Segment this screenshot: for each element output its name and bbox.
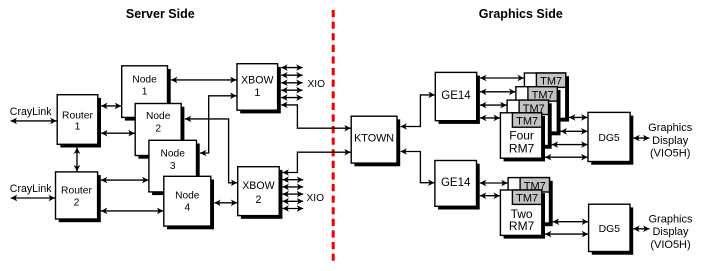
svg-text:GE14: GE14 [441,90,471,102]
box Router 2 [56,172,101,222]
svg-text:TM7: TM7 [516,193,538,205]
svg-text:(VIO5H): (VIO5H) [650,148,690,160]
wire TM7 board 1 to DG5 upper [569,116,588,118]
wire Router 1 to Router 2 [76,148,78,172]
box Node 2 [135,104,184,159]
svg-text:RM7: RM7 [509,142,535,156]
wire Node 3 to XBOW 1 [200,96,237,153]
svg-text:DG5: DG5 [598,133,620,144]
svg-text:2: 2 [74,198,80,209]
wire TM7 board 2 to DG5 upper [561,130,588,132]
divider: red dashed line between server and graphics sides [332,10,335,261]
wire KTOWN to GE14 lower [401,152,435,183]
svg-text:XIO: XIO [307,193,325,204]
box KTOWN [351,116,400,166]
wire Node 1 to XBOW 1 [171,79,237,81]
wire XIO port 5 of XBOW 2 [283,208,304,210]
box XBOW 1 [237,64,281,114]
wire TM7 board 6 to DG5 lower [545,233,588,235]
svg-text:1: 1 [75,121,81,132]
svg-text:DG5: DG5 [599,224,621,235]
board Four RM7 (front) [500,113,545,162]
wire GE14 upper to TM7 board 2 [480,91,515,93]
box DG5 lower [589,204,634,255]
wire CrayLink 2 to Router 2 [11,197,55,199]
svg-text:1: 1 [142,87,148,98]
svg-text:Graphics: Graphics [648,213,693,225]
wire DG5 lower to graphics display [633,228,649,230]
wire GE14 upper to TM7 board 3 [480,104,507,106]
svg-text:XBOW: XBOW [241,75,273,87]
box Node 1 [122,66,171,121]
board TM7/RM7 3 [507,100,552,149]
svg-text:(VIO5H): (VIO5H) [650,239,690,251]
box GE14 upper [435,72,480,123]
wire Router 1 to Node 2 [101,132,135,134]
wire Node 4 to XBOW 2 [214,202,237,204]
wire Node 2 to XBOW 2 [185,119,237,183]
wire XIO port 4 of XBOW 2 [283,200,304,202]
board TM7/RM7 5 (back of two stack) [508,178,553,227]
wire XIO port 2 of XBOW 2 [283,186,304,188]
box XBOW 2 [238,167,283,219]
wire XIO port 4 of XBOW 1 [281,89,302,91]
svg-text:CrayLink: CrayLink [10,106,53,118]
svg-text:3: 3 [170,161,176,172]
board Two RM7 (front) [500,190,545,239]
svg-text:Node: Node [161,149,186,160]
svg-text:Router: Router [61,186,92,197]
svg-text:Node: Node [132,74,157,85]
svg-text:XBOW: XBOW [242,180,274,192]
wire XIO port 1 of XBOW 1 [281,67,302,69]
wire XIO port 2 of XBOW 1 [281,74,302,76]
box DG5 upper [588,112,633,164]
wire XIO port 5 of XBOW 1 [281,97,302,99]
svg-text:Router: Router [62,110,93,121]
svg-text:CrayLink: CrayLink [10,183,53,195]
wire GE14 lower to TM7 board 6 [480,195,500,197]
box GE14 lower [435,161,480,210]
svg-text:Display: Display [652,226,689,238]
svg-text:2: 2 [155,124,161,135]
wire Router 2 to Node 4 [101,210,163,212]
wire Router 1 to Node 1 [101,105,121,107]
svg-text:Server Side: Server Side [126,7,195,21]
svg-text:Four: Four [509,128,534,142]
svg-text:1: 1 [254,87,260,99]
box Node 4 [164,176,214,229]
svg-text:TM7: TM7 [516,116,538,128]
wire GE14 upper to TM7 board 1 [480,77,524,79]
wire XBOW 1 to KTOWN [281,105,351,128]
svg-text:GE14: GE14 [441,177,471,189]
wire TM7 board 5 to DG5 lower [553,221,588,223]
svg-text:Node: Node [146,111,171,122]
box Router 1 [57,95,101,148]
board TM7/RM7 1 (back of four stack) [524,73,569,122]
box Node 3 [149,140,200,195]
wire Router 2 to Node 3 [101,179,148,181]
wire XIO port 1 of XBOW 2 [283,179,304,181]
wire TM7 board 4 to DG5 upper [545,156,588,158]
wire CrayLink 1 to Router 1 [11,120,57,122]
wire GE14 lower to TM7 board 5 [480,182,508,184]
wire DG5 upper to graphics display [633,137,649,139]
wire GE14 upper to TM7 board 4 [480,117,500,119]
svg-text:KTOWN: KTOWN [354,133,394,145]
wire XBOW 2 to KTOWN [283,152,351,172]
board TM7/RM7 2 [516,87,561,136]
svg-text:RM7: RM7 [509,219,535,233]
svg-text:2: 2 [255,194,261,206]
wire XIO port 3 of XBOW 2 [283,193,304,195]
svg-text:TM7: TM7 [540,76,562,88]
svg-text:Display: Display [652,135,689,147]
svg-text:Graphics: Graphics [648,122,693,134]
svg-text:4: 4 [184,203,190,214]
wire XIO port 3 of XBOW 1 [281,82,302,84]
svg-text:XIO: XIO [308,79,326,90]
wire KTOWN to GE14 upper [401,95,435,127]
svg-text:Node: Node [175,190,200,201]
wire TM7 board 3 to DG5 upper [552,144,588,146]
svg-text:Graphics Side: Graphics Side [479,7,563,21]
